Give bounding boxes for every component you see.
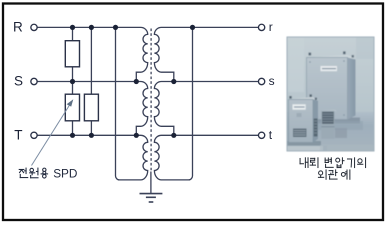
svg-text:S: S (14, 74, 23, 89)
svg-text:r: r (269, 20, 273, 34)
svg-text:R: R (13, 20, 23, 35)
svg-text:s: s (269, 74, 275, 88)
svg-text:SPD: SPD (53, 167, 77, 181)
svg-text:T: T (14, 128, 22, 143)
